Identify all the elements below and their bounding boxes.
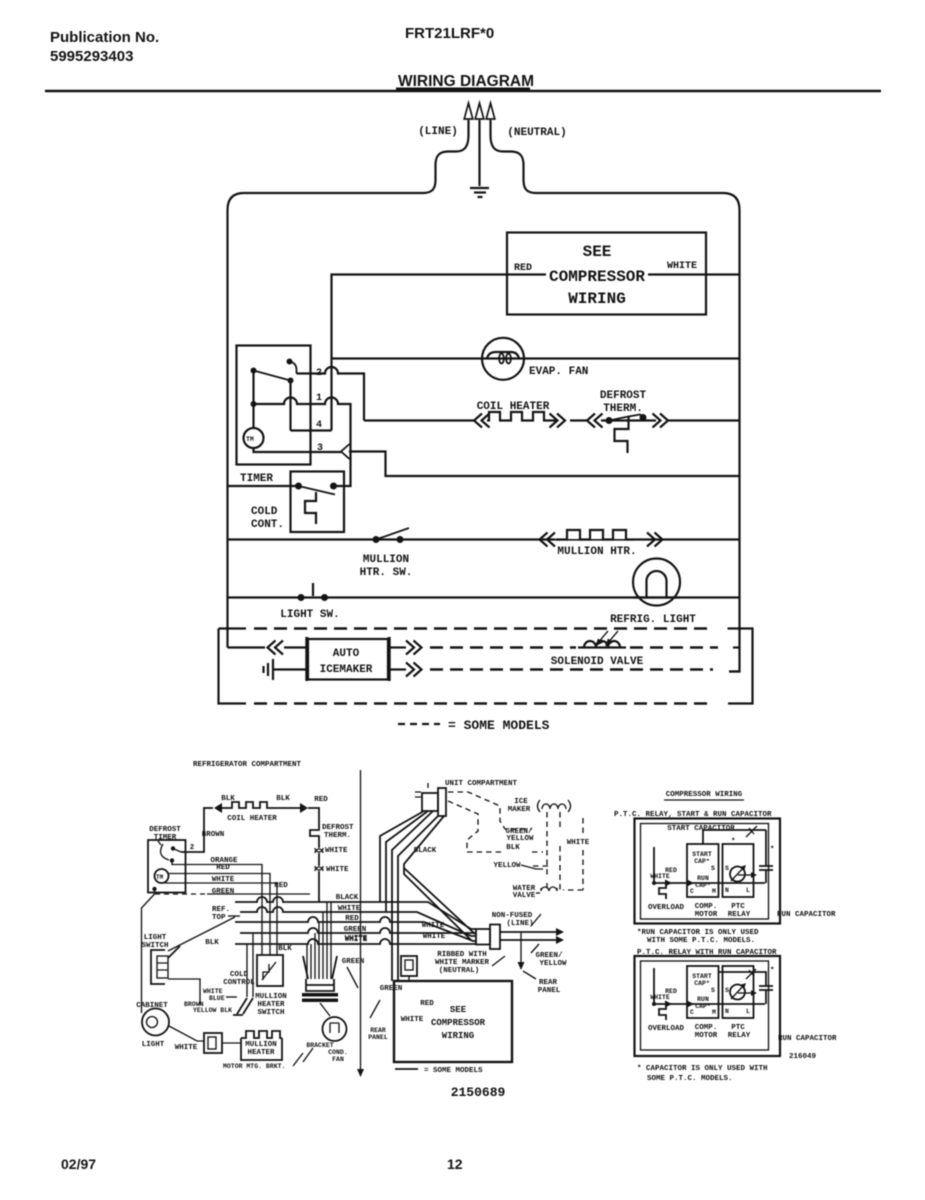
- svg-text:= SOME MODELS: = SOME MODELS: [424, 1067, 483, 1075]
- svg-text:REAR: REAR: [370, 1027, 386, 1034]
- svg-text:(LINE): (LINE): [506, 920, 533, 928]
- svg-text:SWITCH: SWITCH: [141, 942, 168, 950]
- svg-text:REFRIGERATOR COMPARTMENT: REFRIGERATOR COMPARTMENT: [193, 761, 302, 769]
- svg-text:SEE: SEE: [583, 243, 612, 261]
- svg-text:EVAP. FAN: EVAP. FAN: [529, 366, 588, 378]
- svg-text:DEFROST: DEFROST: [600, 390, 647, 402]
- svg-text:RUN: RUN: [697, 996, 709, 1003]
- svg-text:*: *: [770, 967, 775, 975]
- svg-text:S: S: [711, 987, 715, 994]
- svg-text:WHITE: WHITE: [326, 866, 349, 874]
- svg-text:TM: TM: [156, 874, 164, 881]
- svg-text:AUTO: AUTO: [333, 648, 360, 660]
- svg-text:TIMER: TIMER: [240, 473, 273, 485]
- svg-text:PANEL: PANEL: [538, 987, 561, 995]
- svg-text:COIL HEATER: COIL HEATER: [477, 401, 550, 413]
- svg-text:REAR: REAR: [539, 979, 558, 987]
- svg-text:RELAY: RELAY: [728, 1032, 751, 1040]
- svg-text:WHITE: WHITE: [650, 994, 670, 1001]
- svg-text:L: L: [746, 887, 750, 894]
- svg-text:MULLION HTR.: MULLION HTR.: [557, 546, 636, 558]
- svg-text:COND.: COND.: [328, 1049, 348, 1056]
- svg-text:PTC: PTC: [731, 1024, 745, 1032]
- svg-text:START CAPACITOR: START CAPACITOR: [667, 825, 735, 833]
- svg-text:BLUE: BLUE: [209, 995, 225, 1002]
- svg-text:HTR. SW.: HTR. SW.: [360, 567, 413, 579]
- svg-text:RUN: RUN: [697, 875, 709, 882]
- svg-text:3: 3: [317, 443, 323, 454]
- svg-text:= SOME MODELS: = SOME MODELS: [448, 718, 550, 733]
- svg-text:WHITE: WHITE: [203, 988, 223, 995]
- svg-text:WHITE: WHITE: [345, 935, 368, 943]
- svg-text:HEATER: HEATER: [247, 1049, 275, 1057]
- svg-text:L: L: [746, 1008, 750, 1015]
- svg-text:COMPRESSOR: COMPRESSOR: [431, 1018, 486, 1028]
- svg-text:FRT21LRF*0: FRT21LRF*0: [405, 25, 494, 42]
- svg-text:RED: RED: [216, 864, 230, 872]
- svg-text:COMPRESSOR: COMPRESSOR: [549, 268, 645, 286]
- svg-text:WHITE: WHITE: [175, 1044, 198, 1052]
- svg-text:HEATER: HEATER: [257, 1001, 285, 1009]
- svg-text:RED: RED: [514, 263, 532, 274]
- svg-text:2: 2: [190, 844, 195, 852]
- svg-text:216049: 216049: [789, 1053, 817, 1061]
- svg-text:BLK: BLK: [278, 945, 292, 953]
- svg-text:THERM.: THERM.: [324, 832, 351, 840]
- svg-text:WHITE: WHITE: [567, 839, 590, 847]
- svg-text:COMP.: COMP.: [695, 1024, 718, 1032]
- svg-text:COMPRESSOR WIRING: COMPRESSOR WIRING: [666, 791, 743, 799]
- svg-text:RED: RED: [420, 1000, 434, 1008]
- svg-text:COMP.: COMP.: [695, 903, 718, 911]
- svg-text:M: M: [712, 888, 716, 895]
- svg-text:RIBBED WITH: RIBBED WITH: [437, 951, 487, 959]
- svg-text:RUN CAPACITOR: RUN CAPACITOR: [778, 1035, 837, 1043]
- svg-text:MULLION: MULLION: [255, 993, 287, 1001]
- svg-text:START: START: [692, 851, 712, 858]
- svg-text:BLK: BLK: [506, 844, 520, 852]
- svg-text:OVERLOAD: OVERLOAD: [648, 904, 685, 912]
- svg-text:ICE: ICE: [514, 798, 528, 806]
- svg-text:LIGHT: LIGHT: [144, 934, 167, 942]
- svg-text:(LINE): (LINE): [418, 126, 458, 138]
- svg-text:SEE: SEE: [450, 1005, 467, 1015]
- svg-text:S: S: [711, 865, 715, 872]
- svg-text:WHITE: WHITE: [423, 933, 446, 941]
- svg-text:S: S: [725, 987, 729, 994]
- svg-text:FAN: FAN: [332, 1056, 344, 1063]
- svg-text:LIGHT SW.: LIGHT SW.: [280, 609, 339, 621]
- svg-text:MOTOR MTG. BRKT.: MOTOR MTG. BRKT.: [223, 1063, 285, 1070]
- svg-text:REFRIG. LIGHT: REFRIG. LIGHT: [610, 614, 696, 626]
- svg-text:WHITE: WHITE: [325, 847, 348, 855]
- svg-text:WIRING DIAGRAM: WIRING DIAGRAM: [398, 73, 534, 90]
- svg-text:WIRING: WIRING: [568, 290, 626, 308]
- svg-text:COLD: COLD: [251, 506, 278, 518]
- svg-text:GREEN: GREEN: [380, 985, 403, 993]
- svg-text:YELLOW BLK: YELLOW BLK: [193, 1007, 232, 1014]
- svg-text:YELLOW: YELLOW: [506, 835, 534, 843]
- svg-text:NON-FUSED: NON-FUSED: [492, 912, 533, 920]
- svg-text:C: C: [690, 1009, 694, 1016]
- svg-text:RELAY: RELAY: [728, 911, 751, 919]
- svg-text:PANEL: PANEL: [368, 1034, 388, 1041]
- svg-text:GREEN: GREEN: [342, 958, 365, 966]
- svg-text:CAP*: CAP*: [694, 858, 710, 865]
- svg-text:DEFROST: DEFROST: [322, 824, 354, 832]
- svg-text:RED: RED: [314, 796, 328, 804]
- svg-text:YELLOW: YELLOW: [493, 862, 521, 870]
- svg-text:Publication No.: Publication No.: [50, 29, 159, 46]
- svg-text:N: N: [725, 1008, 729, 1015]
- svg-text:WHITE: WHITE: [650, 873, 670, 880]
- svg-text:2: 2: [316, 368, 322, 379]
- svg-text:COLD: COLD: [230, 971, 249, 979]
- svg-text:BLACK: BLACK: [414, 847, 437, 855]
- svg-text:* CAPACITOR IS ONLY USED WITH: * CAPACITOR IS ONLY USED WITH: [637, 1065, 768, 1073]
- svg-text:OVERLOAD: OVERLOAD: [648, 1025, 685, 1033]
- svg-text:START: START: [692, 973, 712, 980]
- svg-text:5995293403: 5995293403: [50, 48, 133, 65]
- svg-text:CAP*: CAP*: [694, 980, 710, 987]
- svg-text:BLK: BLK: [276, 795, 290, 803]
- svg-text:MAKER: MAKER: [508, 806, 531, 814]
- svg-text:2150689: 2150689: [451, 1085, 506, 1100]
- svg-text:BLK: BLK: [205, 939, 219, 947]
- svg-text:YELLOW: YELLOW: [539, 960, 567, 968]
- svg-text:MULLION: MULLION: [245, 1041, 277, 1049]
- svg-text:MULLION: MULLION: [363, 554, 409, 566]
- svg-text:(NEUTRAL): (NEUTRAL): [439, 967, 480, 975]
- svg-text:C: C: [690, 888, 694, 895]
- svg-text:S: S: [725, 865, 729, 872]
- svg-text:MOTOR: MOTOR: [695, 1032, 718, 1040]
- svg-text:RUN CAPACITOR: RUN CAPACITOR: [777, 911, 836, 919]
- svg-text:SOME P.T.C. MODELS.: SOME P.T.C. MODELS.: [647, 1075, 733, 1083]
- svg-text:WIRING: WIRING: [442, 1031, 474, 1041]
- svg-text:THERM.: THERM.: [603, 403, 643, 415]
- svg-text:1: 1: [316, 393, 322, 404]
- svg-text:VALVE: VALVE: [513, 892, 536, 900]
- svg-text:CONTROL: CONTROL: [223, 979, 255, 987]
- svg-text:ICEMAKER: ICEMAKER: [320, 664, 373, 676]
- svg-text:DEFROST: DEFROST: [149, 826, 181, 834]
- svg-text:*: *: [731, 838, 736, 846]
- svg-text:TIMER: TIMER: [154, 834, 177, 842]
- svg-text:GREEN/: GREEN/: [535, 952, 563, 960]
- svg-text:WHITE: WHITE: [401, 1016, 424, 1024]
- svg-text:BRACKET: BRACKET: [306, 1042, 333, 1049]
- svg-text:SOLENOID VALVE: SOLENOID VALVE: [551, 656, 644, 668]
- svg-text:BROWN: BROWN: [202, 831, 225, 839]
- svg-text:N: N: [725, 887, 729, 894]
- svg-text:M: M: [712, 1009, 716, 1016]
- svg-text:COIL HEATER: COIL HEATER: [227, 815, 277, 823]
- svg-text:PTC: PTC: [731, 903, 745, 911]
- svg-text:WHITE MARKER: WHITE MARKER: [435, 959, 490, 967]
- svg-text:REF.: REF.: [212, 906, 230, 914]
- svg-text:WHITE: WHITE: [422, 922, 445, 930]
- svg-text:BLACK: BLACK: [336, 894, 359, 902]
- svg-text:WITH SOME P.T.C. MODELS.: WITH SOME P.T.C. MODELS.: [647, 937, 755, 945]
- svg-text:*RUN CAPACITOR IS ONLY USED: *RUN CAPACITOR IS ONLY USED: [637, 929, 759, 937]
- svg-text:MOTOR: MOTOR: [695, 911, 718, 919]
- svg-text:02/97: 02/97: [61, 1156, 96, 1172]
- svg-text:RED: RED: [274, 882, 288, 890]
- svg-text:TM: TM: [246, 436, 254, 443]
- svg-text:LIGHT: LIGHT: [142, 1041, 165, 1049]
- svg-text:BLK: BLK: [221, 795, 235, 803]
- svg-text:GREEN: GREEN: [212, 888, 235, 896]
- svg-text:WHITE: WHITE: [667, 261, 697, 272]
- svg-text:CONT.: CONT.: [251, 519, 284, 531]
- svg-text:SWITCH: SWITCH: [257, 1009, 284, 1017]
- svg-text:TOP: TOP: [212, 914, 226, 922]
- svg-text:12: 12: [447, 1156, 463, 1172]
- svg-text:(NEUTRAL): (NEUTRAL): [507, 127, 566, 139]
- svg-text:4: 4: [316, 420, 322, 431]
- svg-text:*: *: [770, 846, 775, 854]
- svg-text:UNIT COMPARTMENT: UNIT COMPARTMENT: [445, 780, 518, 788]
